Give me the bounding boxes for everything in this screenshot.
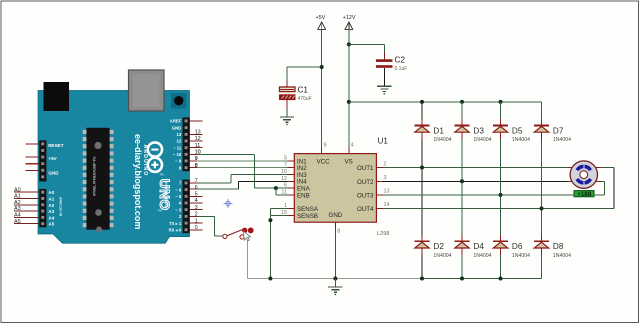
svg-text:OUT3: OUT3 <box>357 193 374 200</box>
svg-text:1N4004: 1N4004 <box>433 137 451 143</box>
svg-text:A2: A2 <box>48 203 54 208</box>
svg-text:1N4004: 1N4004 <box>512 137 530 143</box>
svg-text:4: 4 <box>195 198 198 204</box>
svg-text:D8: D8 <box>553 242 564 251</box>
svg-text:~ 11: ~ 11 <box>173 145 182 150</box>
svg-text:0.1uF: 0.1uF <box>395 66 408 72</box>
svg-text:+5V: +5V <box>316 15 326 21</box>
svg-text:0: 0 <box>195 225 198 231</box>
svg-text:AREF: AREF <box>170 119 182 124</box>
svg-text:13: 13 <box>195 130 201 136</box>
svg-text:C1: C1 <box>298 85 309 94</box>
svg-text:1N4004: 1N4004 <box>553 137 571 143</box>
svg-text:9: 9 <box>324 143 327 149</box>
svg-text:C2: C2 <box>395 55 406 64</box>
svg-text:A4: A4 <box>48 215 54 220</box>
svg-text:ANALOG IN: ANALOG IN <box>59 197 63 217</box>
svg-text:D1: D1 <box>433 126 444 135</box>
svg-text:OUT1: OUT1 <box>357 165 374 172</box>
svg-text:VS: VS <box>345 158 353 165</box>
svg-text:8: 8 <box>337 228 340 234</box>
svg-text:D6: D6 <box>512 242 523 251</box>
svg-text:TX ▸ 1: TX ▸ 1 <box>169 221 182 226</box>
svg-text:1N4004: 1N4004 <box>473 253 491 259</box>
svg-text:1N4004: 1N4004 <box>433 253 451 259</box>
svg-text:RESET: RESET <box>48 143 64 148</box>
svg-text:+12V: +12V <box>343 15 356 21</box>
svg-text:5: 5 <box>195 192 198 198</box>
svg-text:~ 9: ~ 9 <box>175 159 182 164</box>
svg-text:1N4004: 1N4004 <box>512 253 530 259</box>
svg-text:~ 6: ~ 6 <box>175 187 182 192</box>
svg-text:IN4: IN4 <box>297 179 307 186</box>
svg-text:A3: A3 <box>14 206 21 212</box>
svg-text:7: 7 <box>195 178 198 184</box>
svg-text:IN1: IN1 <box>297 158 307 165</box>
svg-text:3: 3 <box>384 175 387 181</box>
svg-text:12: 12 <box>177 139 182 144</box>
svg-text:2: 2 <box>195 212 198 218</box>
svg-text:ENB: ENB <box>297 192 310 199</box>
svg-text:ENA: ENA <box>297 186 311 193</box>
svg-text:IN3: IN3 <box>297 172 307 179</box>
svg-text:GND: GND <box>48 170 59 175</box>
svg-text:VCC: VCC <box>317 158 331 165</box>
svg-text:A0: A0 <box>48 190 54 195</box>
svg-text:GND: GND <box>329 212 343 219</box>
svg-text:12: 12 <box>195 136 201 142</box>
svg-text:OUT2: OUT2 <box>357 179 374 186</box>
svg-text:470uF: 470uF <box>298 96 312 102</box>
svg-text:8: 8 <box>195 163 198 169</box>
svg-text:A5: A5 <box>48 222 54 227</box>
svg-text:13: 13 <box>384 189 390 195</box>
svg-text:+188: +188 <box>577 191 591 198</box>
svg-text:A0: A0 <box>14 187 21 193</box>
svg-text:10: 10 <box>195 150 201 156</box>
svg-text:~ 3: ~ 3 <box>175 207 182 212</box>
svg-text:SENSB: SENSB <box>297 213 318 220</box>
svg-text:A2: A2 <box>14 200 21 206</box>
svg-text:1N4004: 1N4004 <box>553 253 571 259</box>
svg-text:ATMEL ATMEGA328P-PU: ATMEL ATMEGA328P-PU <box>93 156 97 196</box>
svg-text:A4: A4 <box>14 213 21 219</box>
svg-text:U1: U1 <box>378 137 389 146</box>
svg-text:A1: A1 <box>14 194 21 200</box>
svg-text:A5: A5 <box>14 219 21 225</box>
svg-text:L298: L298 <box>377 231 389 237</box>
svg-text:1: 1 <box>195 218 198 224</box>
svg-text:13: 13 <box>177 132 182 137</box>
svg-text:9: 9 <box>195 156 198 162</box>
svg-text:~ 5: ~ 5 <box>175 194 182 199</box>
svg-text:2: 2 <box>384 161 387 167</box>
svg-text:1N4004: 1N4004 <box>473 137 491 143</box>
svg-text:UNO: UNO <box>157 179 172 211</box>
svg-text:A1: A1 <box>48 197 54 202</box>
svg-text:3: 3 <box>195 205 198 211</box>
svg-text:+5V: +5V <box>48 156 57 161</box>
svg-text:OUT4: OUT4 <box>357 206 374 213</box>
svg-text:GND: GND <box>172 125 181 130</box>
svg-text:RX ◂ 0: RX ◂ 0 <box>169 228 182 233</box>
svg-text:D2: D2 <box>433 242 444 251</box>
svg-text:ee-diary.blogspot.com: ee-diary.blogspot.com <box>133 134 143 229</box>
svg-text:11: 11 <box>195 143 201 149</box>
svg-text:A3: A3 <box>48 209 54 214</box>
svg-text:6: 6 <box>195 185 198 191</box>
svg-text:D3: D3 <box>473 126 484 135</box>
svg-text:14: 14 <box>384 202 390 208</box>
svg-text:SENSA: SENSA <box>297 206 319 213</box>
svg-text:4: 4 <box>351 143 354 149</box>
svg-text:D4: D4 <box>473 242 484 251</box>
svg-text:~ 10: ~ 10 <box>173 152 182 157</box>
svg-text:TM: TM <box>158 209 163 213</box>
svg-text:D5: D5 <box>512 126 523 135</box>
svg-text:TM: TM <box>160 173 165 177</box>
svg-text:IN2: IN2 <box>297 165 307 172</box>
svg-text:D7: D7 <box>553 126 564 135</box>
